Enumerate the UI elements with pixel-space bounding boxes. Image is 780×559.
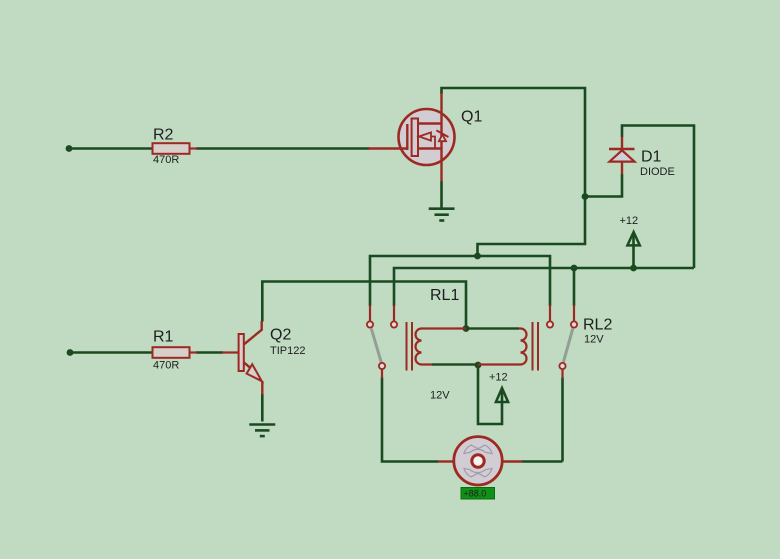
svg-text:TIP122: TIP122 (270, 345, 305, 357)
svg-text:R1: R1 (153, 329, 174, 346)
svg-text:Q1: Q1 (461, 109, 482, 126)
svg-text:DIODE: DIODE (640, 166, 675, 178)
svg-text:12V: 12V (584, 334, 604, 346)
svg-text:RL1: RL1 (430, 287, 459, 304)
svg-text:+12: +12 (620, 215, 639, 227)
svg-text:RL2: RL2 (583, 317, 612, 334)
svg-text:+12: +12 (489, 372, 508, 384)
svg-text:R2: R2 (153, 127, 174, 144)
svg-text:470R: 470R (153, 360, 179, 372)
svg-text:+88.0: +88.0 (464, 489, 487, 499)
svg-text:D1: D1 (641, 149, 662, 166)
svg-text:Q2: Q2 (270, 327, 291, 344)
svg-text:470R: 470R (153, 154, 179, 166)
svg-text:12V: 12V (430, 390, 450, 402)
